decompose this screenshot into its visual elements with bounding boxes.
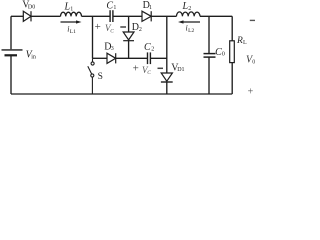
branch VD1 vertical from top rail	[166, 16, 168, 73]
label RL	[236, 36, 247, 46]
svg-text:D0: D0	[28, 4, 35, 10]
wire VD1 to bottom rail	[166, 82, 168, 94]
label iL1	[67, 25, 76, 35]
label C0	[215, 47, 225, 58]
svg-text:in: in	[31, 55, 36, 61]
diode D3	[107, 53, 116, 63]
capacitor C2	[148, 52, 151, 64]
right rail top segment	[231, 16, 233, 41]
label D2	[132, 22, 142, 33]
bottom rail	[11, 93, 232, 95]
label V0	[246, 55, 255, 66]
svg-text:R: R	[236, 36, 243, 46]
inductor L1	[61, 12, 82, 16]
diode D1	[142, 11, 151, 21]
wire C0 to bottom rail	[208, 57, 210, 94]
wire VD0 to L1	[31, 15, 61, 17]
svg-text:1: 1	[70, 6, 73, 12]
svg-text:2: 2	[188, 6, 191, 12]
resistor RL	[230, 41, 235, 63]
svg-text:L2: L2	[188, 28, 194, 34]
capacitor C0	[204, 54, 216, 58]
svg-text:C: C	[106, 1, 113, 12]
wire L1 to C1	[82, 15, 111, 17]
wire D2 to middle rail	[128, 41, 130, 59]
branch C0 vertical from top rail	[208, 16, 210, 53]
label minus output	[250, 19, 255, 21]
wire C1 to D1	[113, 15, 142, 17]
label VC1	[105, 23, 114, 34]
current arrow iL2	[178, 20, 200, 23]
svg-text:L: L	[243, 40, 247, 46]
svg-text:+: +	[248, 86, 254, 97]
svg-text:L1: L1	[70, 29, 76, 35]
diode VD0	[23, 11, 31, 21]
left rail bottom segment	[10, 55, 12, 94]
diode VD1	[161, 73, 173, 82]
svg-text:S: S	[98, 72, 103, 82]
svg-text:0: 0	[222, 52, 225, 58]
current arrow iL1	[61, 20, 82, 23]
label C2	[144, 42, 154, 53]
wire L2 to top-right corner	[200, 15, 232, 17]
svg-text:3: 3	[111, 46, 114, 52]
wire D1 to L2	[151, 15, 176, 17]
svg-text:1: 1	[113, 5, 116, 11]
middle rail segment switch to D3	[93, 57, 108, 59]
right rail bottom segment	[231, 63, 233, 94]
svg-text:C: C	[110, 28, 114, 34]
capacitor C1	[110, 10, 113, 22]
switch S	[88, 58, 94, 94]
svg-text:2: 2	[151, 47, 154, 53]
left rail top segment	[10, 16, 12, 49]
svg-text:+: +	[95, 21, 101, 33]
label C1	[106, 1, 116, 12]
svg-text:+: +	[133, 62, 139, 74]
svg-text:1: 1	[149, 5, 152, 11]
label VC2	[142, 65, 151, 76]
inductor L2	[177, 12, 201, 16]
wire top rail left segment	[11, 15, 23, 17]
label VD0	[22, 0, 35, 10]
battery Vin	[2, 50, 23, 55]
middle rail D3 to C2	[116, 57, 148, 59]
label D1	[143, 0, 152, 11]
label D3	[104, 41, 114, 52]
label L2	[182, 1, 192, 12]
label L1	[64, 1, 74, 12]
label VD1	[171, 62, 184, 73]
label minus of VC1	[120, 26, 126, 28]
svg-text:D1: D1	[177, 67, 184, 73]
svg-text:C: C	[144, 42, 151, 53]
diode D2	[123, 32, 134, 41]
branch D2 vertical	[128, 16, 130, 32]
svg-text:0: 0	[252, 59, 255, 65]
node branch vertical L1-C1 to switch	[92, 16, 94, 58]
label minus of VC2	[158, 67, 164, 69]
label Vin	[26, 50, 36, 61]
middle rail C2 to VD1 branch	[150, 57, 166, 59]
svg-text:2: 2	[139, 27, 142, 33]
svg-text:C: C	[147, 70, 151, 76]
label iL2	[186, 24, 195, 34]
